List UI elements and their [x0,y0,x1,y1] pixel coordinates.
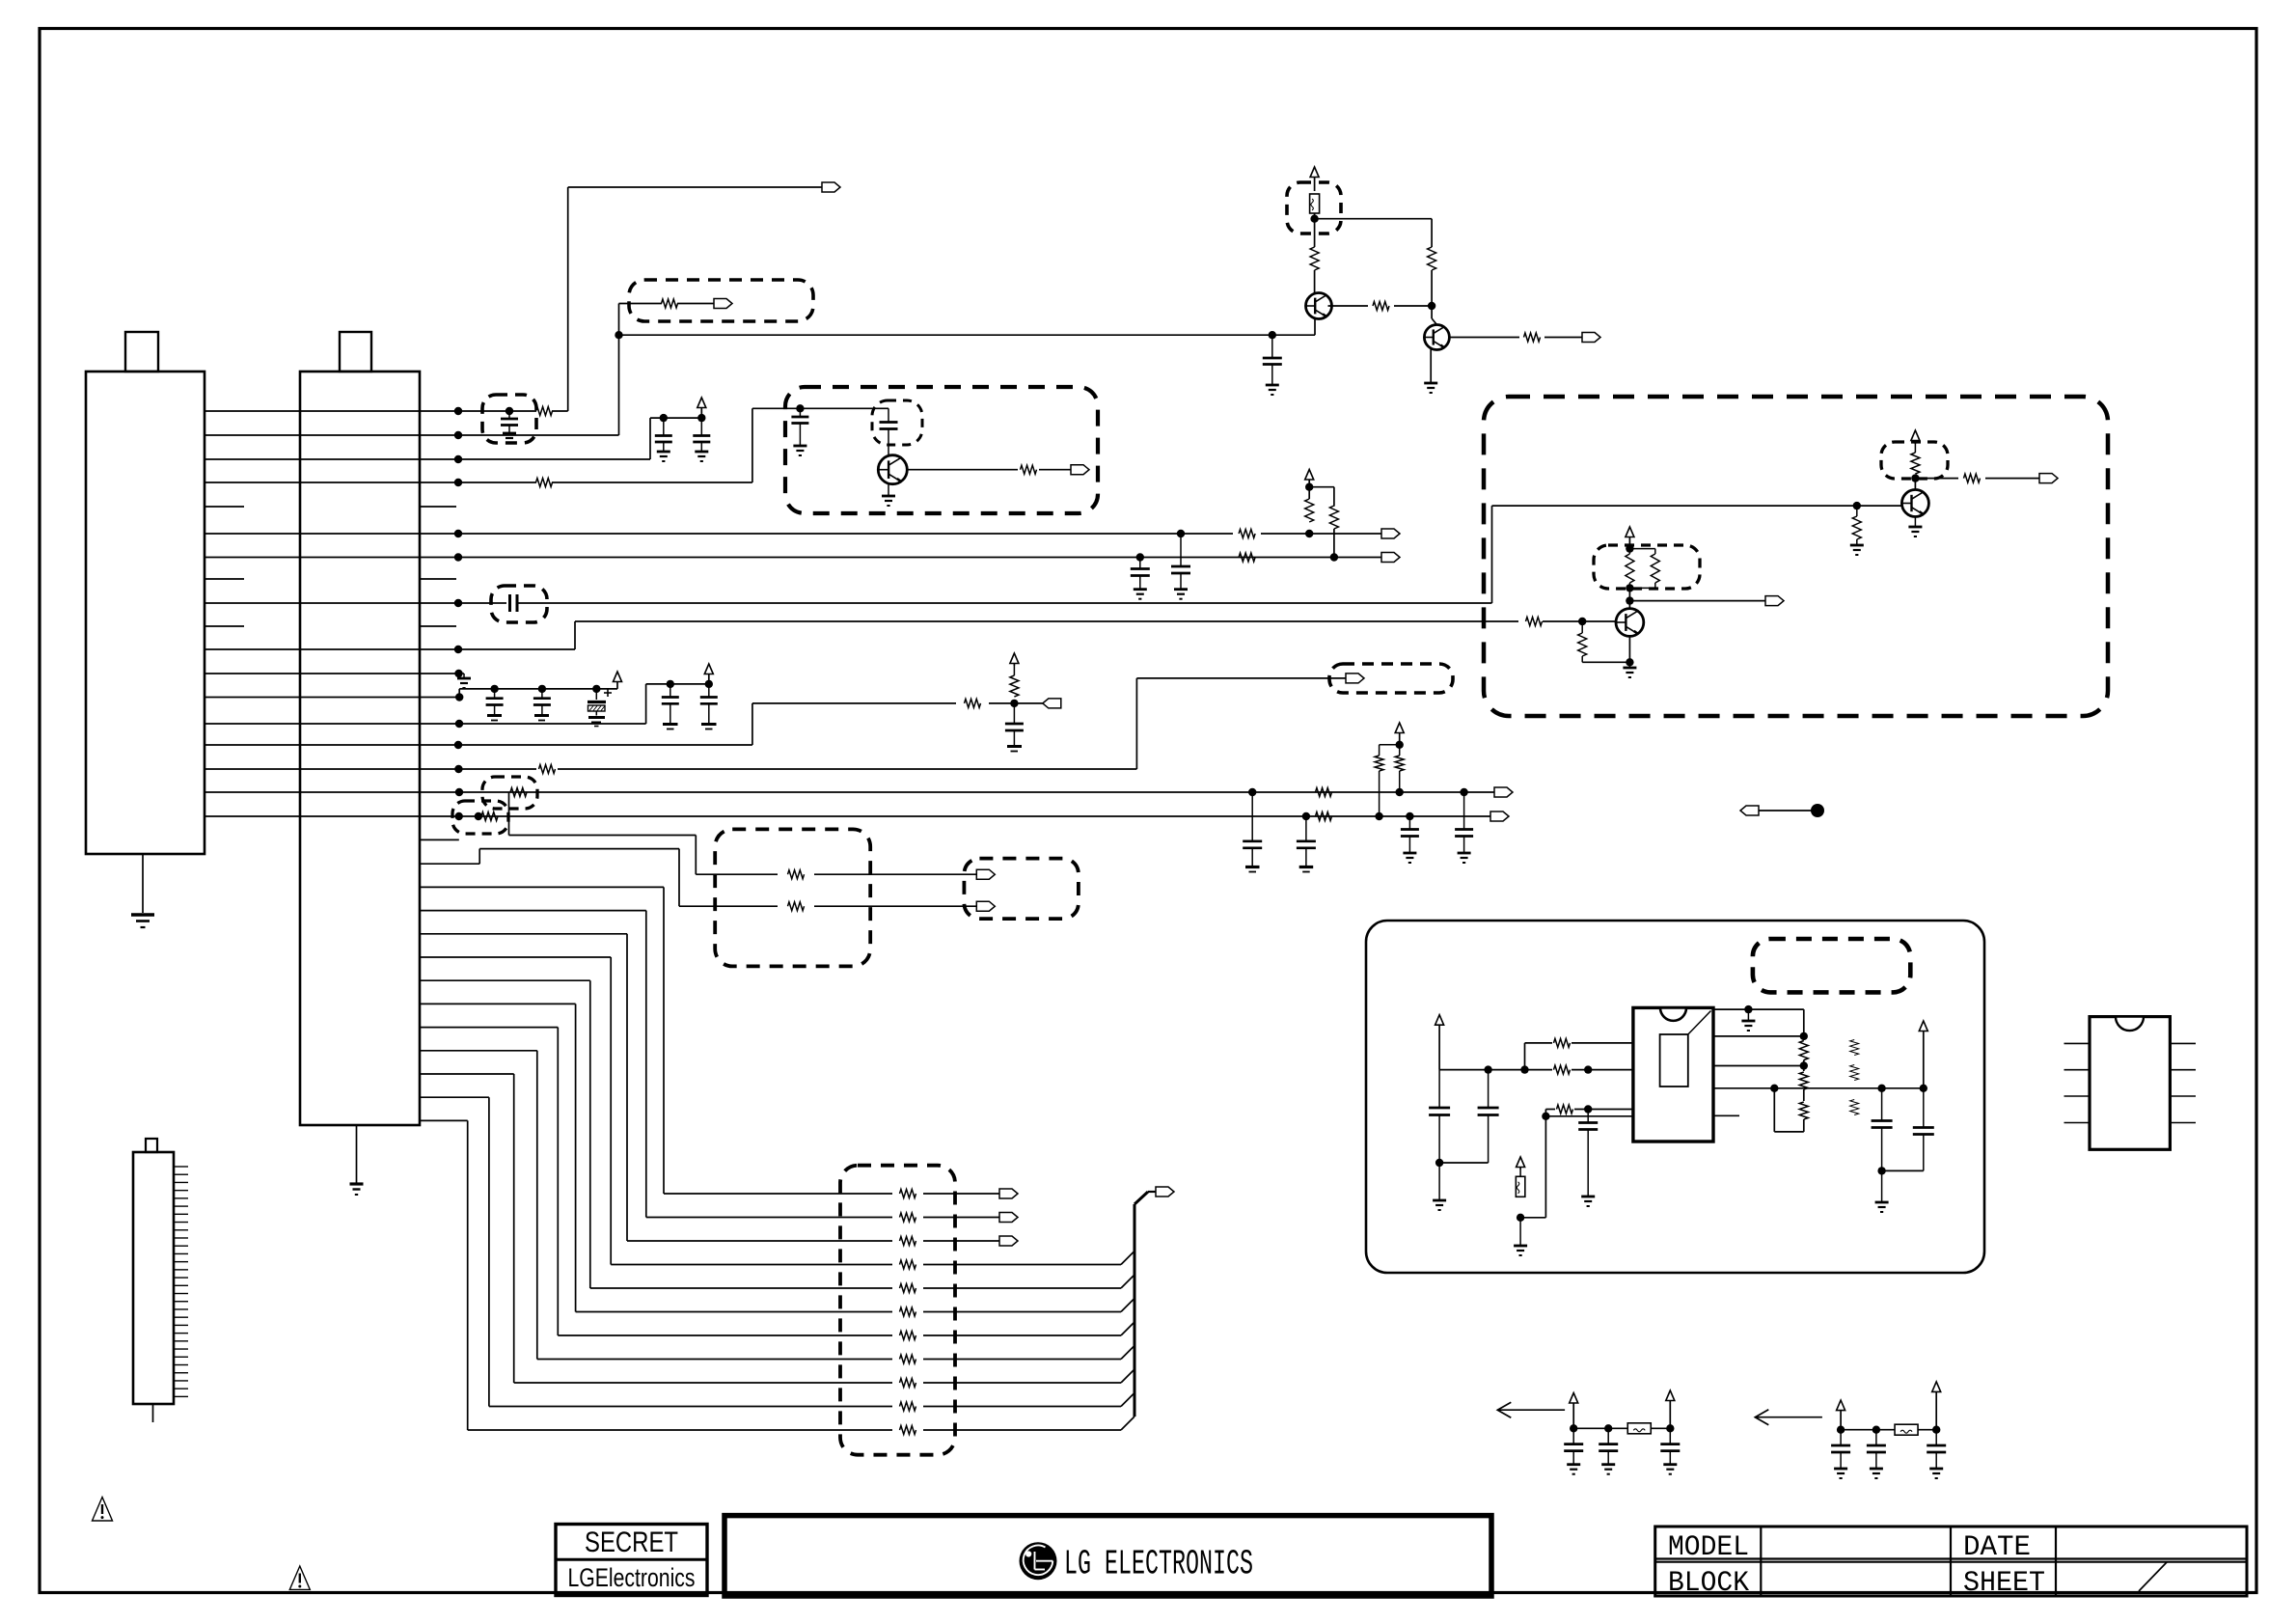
junction dot k15 [454,765,462,773]
circuit A main wire [1573,1427,1608,1429]
junction dot out4 c [1920,1085,1927,1092]
capacitor on k2 run no1 [663,418,665,435]
IC U3 left pin 3 [2064,1095,2091,1097]
big dashed box D1 (right) [1484,397,2108,716]
terminal flag in F2 [1071,465,1089,475]
wire k11 from P2 to ground tap [420,673,459,674]
title box LG ELECTRONICS [724,1516,1491,1596]
circuit B junction dot 2 [1872,1426,1880,1434]
wire row 10 P1 through P2 [205,648,420,650]
wire k10 long run to D1 [575,620,1518,622]
junction dot under FR2 [1517,1214,1524,1222]
ground of k5 cap [1174,588,1188,591]
junction dot k6 divider [1330,553,1338,561]
dashed box E2 around w0 w1 terminals [964,859,1079,920]
junction dot node2 [1428,302,1435,310]
row b3 diagonal to vertical bus [1121,1252,1134,1265]
power arrow above pull-up pair [1395,723,1404,733]
row b8 to bus [923,1382,1121,1384]
riser k15 up [1135,678,1137,769]
wire k14 upper run to resistor [752,702,956,704]
wire row 14 P1 through P2 [205,744,420,746]
circuit A ground 1 [1567,1463,1580,1466]
resistor on k5 [1239,530,1255,538]
wire k2 upper run [650,417,701,419]
capacitor k16 b to ground [1463,792,1465,830]
rounded box G1 (regulator block) [1366,921,1984,1273]
terminal flag Q4 output [2039,474,2058,483]
wire k15 long run [558,768,1136,770]
transistor Q1 [1306,293,1332,319]
capacitor k12 c2 [541,689,543,699]
fusible resistor FR2 [1516,1176,1525,1197]
wire k14 from P2 [420,744,752,746]
bus wire b8 row run [514,1382,892,1384]
resistor on w0 in E1 [788,870,805,879]
terminal flag k17 [1490,811,1509,821]
resistor k6 pull to k5 node [1329,506,1338,529]
circuit B capacitor 3 [1935,1430,1937,1445]
circuit A capacitor 2 [1607,1428,1609,1444]
resistor in B1 [662,299,678,308]
resistor fb3 [1799,1102,1808,1119]
wire stub row 9 left of P2 [205,625,244,627]
parallel resistor bottom joins [1628,583,1630,588]
dashed box around k15 terminal [1329,664,1453,693]
wire w0 to terminal [814,873,976,875]
wire Q5 collector to terminal [1629,600,1765,602]
wire k10 from P2 [420,648,575,650]
wire FR2 down to ground [1519,1218,1521,1246]
connector P2 body (second from left) [300,371,420,1125]
junction dot k17 x496 [475,812,482,820]
junction dot k17 cap a [1302,812,1310,820]
bundle w0 descend [695,836,697,875]
connector P1 body (top-left) [86,371,205,854]
capacitor at F2 entry to ground [799,408,801,417]
wire B1 resistor to terminal [677,303,714,305]
parallel resistor a [1626,554,1634,583]
circuit B ferrite bead resistor [1895,1424,1918,1435]
wire row 8 P1 through P2 [205,602,420,604]
resistor Q4 pull-up [1911,453,1920,474]
Q3 collector wire to resistor [907,469,1018,471]
riser wire up from k0 [567,187,569,411]
wire row 16 P1 through P2 [205,791,420,793]
resistor on row b4 [900,1284,916,1293]
wire stub row 18 right of P2 [420,839,459,840]
junction dot Q5 base [1578,618,1586,625]
junction dot k13 [455,720,463,728]
resistor fb2 [1799,1072,1808,1089]
junction dot k5 divider [1305,530,1313,537]
wire pull-up to power arrow [1914,444,1916,453]
LG logo face [1024,1546,1053,1576]
junction dot Q5 collector [1626,596,1633,604]
transistor Q2 [1424,325,1449,350]
Q5 emitter down [1628,636,1630,662]
circuit B main wire [1841,1429,1876,1431]
Q5 collector riser [1628,601,1630,609]
ground tap stem [1747,1009,1749,1021]
ground under FR2 [1514,1245,1527,1248]
wire c6 bottom to c5 bottom [1882,1169,1924,1171]
wire k8 after series cap long run [517,602,1492,604]
resistor Q2 output [1524,333,1541,342]
junction dot under c1 [1435,1159,1443,1167]
wire R1 to IC [1572,1042,1633,1044]
small dashed circle box around C inside F2 [872,400,922,445]
Q2 output wire to resistor [1449,337,1519,339]
wire R to Q1 [1314,270,1316,293]
wire to second pulldown resistor [1309,486,1334,488]
faint resistor col x1922 a [1850,1040,1859,1056]
bus wire b4 from P2 [420,979,590,981]
lower wire into IC [1545,1115,1633,1117]
wire fb mid link [1803,1060,1805,1072]
wire U2 out3 [1713,1065,1804,1067]
bus wire b5 from P2 [420,1003,576,1004]
wire to terminal in F2 [1039,469,1071,471]
fusible resistor FR1 [1310,194,1320,213]
dashed boxlet around Q4 pull-up resistor [1881,442,1948,479]
power arrow G1 left [1435,1015,1444,1026]
transistor Q4 (top right in D1) [1901,490,1928,517]
wire stub row 9 right of P2 [420,625,456,627]
ground under c1 [1433,1199,1446,1202]
resistor R on k0 [536,407,553,416]
capacitor k13 c2 [708,684,710,698]
power arrow above Q4 [1911,430,1920,441]
step up on k10 [574,621,576,649]
circuit A junction dot 2 [1604,1424,1612,1432]
capacitor G1 c4 [1587,1110,1589,1123]
circuit B junction dot 1 [1837,1426,1845,1434]
table col divider 2 [1950,1527,1952,1596]
bundle w1 into box E1 [679,905,778,907]
power arrow top right feed [1310,167,1319,178]
junction dot k12 [455,693,463,701]
IC U3 right pin 3 [2170,1095,2196,1097]
wire U2 out4 long [1713,1087,1924,1089]
bus wire b10 descend [467,1120,469,1430]
capacitor G1 c6 [1923,1088,1925,1128]
wire FR1 to node [1314,213,1316,219]
row b0 to terminal [923,1193,999,1195]
IC U3 right pin 4 [2170,1122,2196,1124]
bus wire b9 row run [489,1406,892,1408]
vertical bus line [1134,1204,1136,1417]
wire k6 from P2 long run [420,557,1381,559]
junction dot k14 node [1010,700,1018,707]
row b10 diagonal to vertical bus [1121,1417,1134,1430]
junction dot pull-up pair [1396,741,1404,749]
ground below P1 [131,913,154,916]
dashed box around resistor on k16 [482,777,537,809]
bus wire b0 row run [664,1193,892,1195]
pull-up resistor pair to power arrow (k16 k17) [1379,771,1380,816]
capacitor k13 c1 [670,684,671,698]
dashed box around C on k0 [482,395,536,443]
junction dot k6 x475 [454,553,462,561]
power arrow at end of k12 run [616,684,618,689]
bus top horizontal to terminal [1148,1191,1156,1193]
bus wire b3 row run [611,1264,892,1266]
bus wire b2 row run [627,1240,892,1242]
circuit A junction dot 3 [1666,1424,1674,1432]
wire R2 to IC [1572,1069,1633,1071]
parallel resistor b [1651,554,1659,583]
row b8 diagonal to vertical bus [1121,1369,1134,1383]
row b7 to bus [923,1359,1121,1361]
resistor on k17 right [1316,812,1332,821]
ground of k0 capacitor [503,432,516,435]
test point wire right middle [1759,810,1813,811]
capacitor on k0 to ground [508,411,510,419]
ground of k6 cap [1134,588,1147,591]
power arrow above out4 end [1919,1021,1927,1032]
junction dot k17 x475 [455,812,463,820]
junction dot k17 pullup [1375,812,1382,820]
wire k1 from P2 [420,434,619,436]
IC U3 notch [2116,1017,2144,1032]
resistor on k6 [1239,553,1255,562]
junction dot k5 at cap [1177,530,1185,537]
terminal flag top-left [822,182,840,192]
wire U2 top right with ground tap [1713,1008,1804,1010]
svg-text:LGElectronics: LGElectronics [568,1563,696,1592]
circuit B ground 3 [1929,1468,1943,1471]
connector CN3 bottom pin stub [152,1404,154,1422]
power arrow above k13 b [704,664,713,674]
junction dot under c5 [1877,1167,1885,1174]
circuit B capacitor 2 [1875,1430,1877,1445]
junction dot R3 node [1584,1105,1592,1113]
junction dot k5 x475 [454,530,462,537]
junction dot Q4 base node [1853,502,1861,509]
bundle wire w0 run [509,835,697,837]
circuit B ground 1 [1834,1468,1847,1471]
circuit A ground 3 [1663,1463,1677,1466]
row b1 to terminal [923,1217,999,1219]
riser k8 up inside box D1 [1491,506,1493,603]
dashed box E1 [715,829,870,966]
bus wire b4 row run [590,1287,892,1289]
capacitor on k5 to ground [1180,534,1182,566]
table col divider 1 [1760,1527,1762,1596]
connector CN3 right-side pins [174,1166,188,1168]
junction dot k2 x475 [454,455,462,463]
resistor on row b2 [900,1237,916,1246]
resistor R3 mid [1557,1105,1573,1114]
wire resistor to node2 [1394,305,1432,307]
SECRET box divider [556,1558,707,1561]
junction dot k14 [454,741,462,749]
junction dot out2 [1800,1032,1808,1040]
wire k2 from P2 [420,458,650,460]
resistor on k3 [536,479,553,487]
circuit B junction dot 3 [1932,1426,1940,1434]
bus wire b6 descend [557,1028,559,1335]
junction dot above parallel resistors [1626,544,1633,552]
resistor on row b9 [900,1402,916,1411]
wire row 12 P1 through P2 [205,697,420,699]
row b2 to terminal [923,1240,999,1242]
Q3 emitter to ground [888,482,889,496]
wire top run to terminal [568,186,822,188]
wire k3 top run into dashed box F2 [752,407,888,409]
terminal flag k6 [1381,553,1400,563]
terminal flag in B1 [714,299,732,309]
bus top diagonal [1134,1192,1148,1204]
resistor on k16 [510,788,527,797]
capacitor k17 b to ground [1408,816,1410,830]
connector P1 ground stem [142,854,144,913]
wire U2 out2 [1713,1035,1804,1037]
circuit A capacitor 3 [1669,1428,1671,1444]
junction dot k6 at cap [1136,553,1144,561]
feedback vertical a [1803,1009,1805,1036]
junction dot k3 x475 [454,479,462,486]
series capacitor to Q3 base [888,408,889,422]
IC U2 notch [1660,1007,1686,1020]
bundle w1 run [479,848,679,850]
terminal flag k15 [1346,674,1364,683]
svg-text:MODEL: MODEL [1668,1531,1749,1564]
junction dot k2 x687 [660,414,668,422]
wire to terminal right [1985,478,2039,480]
dashed box around resistor on k17 [452,801,508,834]
row b3 to bus [923,1264,1121,1266]
wire k15 from P2 [420,768,536,770]
parallel resistor top joins [1628,549,1630,554]
capacitor k17 a to ground [1305,816,1307,841]
Q4 collector riser [1914,479,1916,490]
dashed box E3 resistor array [840,1166,955,1455]
wire second resistor to k6 [1333,529,1335,558]
resistor on row b6 [900,1332,916,1340]
wire k14 to node [989,702,1045,704]
resistor on row b5 [900,1307,916,1316]
riser k3 up to box F2 net [752,408,753,482]
bus wire b9 from P2 [420,1096,489,1098]
row b4 to bus [923,1287,1121,1289]
row b6 to bus [923,1334,1121,1336]
junction dot pullup top [1305,483,1313,491]
junction dot at F2 entry [796,404,804,412]
wire G1 main left rail [1439,1069,1552,1071]
svg-text:LG ELECTRONICS: LG ELECTRONICS [1064,1545,1253,1584]
connector P1 tab [125,332,158,371]
resistor on Q3 output [1021,465,1037,474]
wire into B1 [619,303,663,305]
wire k0 resistor to riser [552,410,568,412]
circuit B power arrow b [1932,1382,1941,1392]
ground under c5 [1875,1201,1889,1204]
IC U3 left pin 2 [2064,1069,2091,1071]
ground of F2 entry cap [793,445,806,448]
bus wire b9 descend [488,1097,490,1406]
junction dot Q4 collector [1911,474,1919,481]
resistor above Q1 [1310,247,1319,270]
wire k1 long run to transistor Q1 emitter node [619,334,1316,336]
bus wire b7 descend [536,1051,538,1360]
feedback bottom corner [1803,1119,1805,1132]
circuit B power arrow a [1837,1400,1845,1411]
wire c1 bottom to ground [1438,1163,1440,1200]
step up k14 [752,703,753,745]
resistor right branch [1428,247,1436,270]
wire row 1 P1 through P2 [205,434,420,436]
junction dot k10 x475 [454,646,462,653]
junction dot top right [1744,1005,1752,1013]
junction dot k1 x475 [454,431,462,439]
Q5 collector node to parallel resistors [1628,588,1630,600]
bus wire b2 descend [626,934,628,1241]
wire R3 to node [1574,1109,1633,1111]
wire k3 from P2 to resistor [420,481,536,483]
circuit A capacitor 1 [1572,1428,1574,1444]
resistor on row b0 [900,1190,916,1198]
svg-text:DATE: DATE [1963,1531,2031,1564]
IC U3 body (far right) [2090,1017,2170,1150]
ground of k12 c3 [591,722,601,724]
wire bottom link left [1520,1217,1545,1219]
capacitor below k14 node [1013,703,1015,724]
row b5 to bus [923,1311,1121,1313]
bus wire b2 from P2 [420,933,627,935]
vertical link rail to upper wire [1524,1043,1526,1070]
wire row 2 P1 through P2 [205,458,420,460]
ground under base resistor [1850,544,1864,547]
svg-text:BLOCK: BLOCK [1668,1567,1749,1600]
bus wire b1 descend [645,911,647,1218]
terminal flag Q5 output [1765,596,1784,606]
riser k2 up [649,418,651,459]
upper wire to resistor R1 [1525,1042,1553,1044]
circuit A power arrow b [1666,1390,1675,1401]
jog up k13 [645,684,647,724]
IC U2 bottom stub [1713,1114,1739,1116]
resistor R1 [1554,1038,1571,1047]
junction dot lower wire [1542,1113,1549,1120]
resistor k5 pull-up [1305,499,1314,522]
resistor fb1 [1799,1041,1808,1060]
dashed box around fusible resistor [1287,182,1341,234]
dashed label box inside G1 [1753,939,1910,992]
wire k8 top run to Q4 base node [1492,505,1857,507]
sheet slash [2139,1562,2167,1591]
resistor on row b3 [900,1260,916,1269]
junction dot k8 x475 [454,599,462,607]
wire k13 upper run [646,683,709,685]
IC U2 inner die [1660,1034,1688,1087]
wire base node to Q4 [1857,505,1901,507]
resistor Q5 base-emitter [1581,621,1583,633]
junction dot k12 cap3 [592,685,600,693]
ground of k1 capacitor [1266,384,1279,387]
bus wire b6 row run [558,1334,892,1336]
bus wire b10 row run [468,1429,892,1431]
transistor Q3 [878,455,907,484]
wire k3 resistor to riser [552,481,752,483]
wire stub row 7 right of P2 [420,578,456,580]
resistor on k16 right [1316,788,1332,797]
wire node2 down to Q2 [1431,306,1433,318]
wire row 0 P1 through P2 [205,410,420,412]
terminal flag k5 [1381,529,1400,538]
circuit A arrow line to other sheet [1497,1409,1565,1411]
